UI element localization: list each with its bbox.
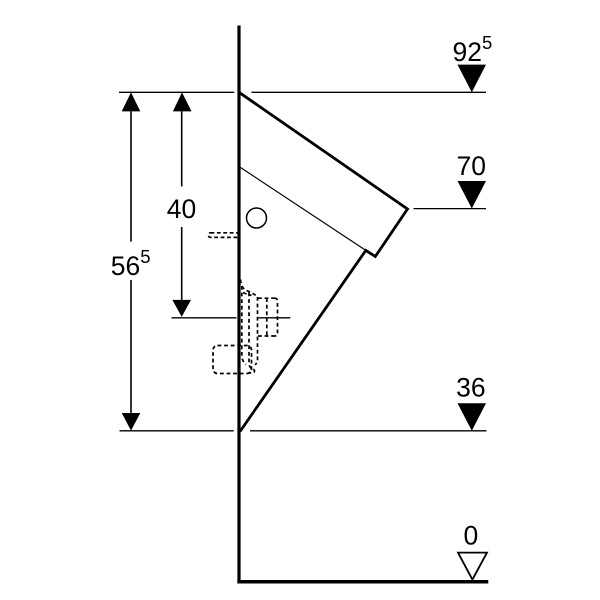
dimension arrow up 40 [173,92,192,111]
dimension arrow up 56.5 [122,92,141,111]
level arrow 36 [458,403,487,431]
trap tube middle wall (dashed) [249,293,253,370]
outlet socket middle rib (dashed) [266,298,268,336]
svg-text:0: 0 [464,521,479,551]
level line 36 [120,430,234,432]
level arrow 92.5 [458,65,487,93]
dimension stem 40 lower [181,227,183,300]
trap bottom hook (dashed) [249,369,255,373]
svg-text:70: 70 [457,151,486,181]
level arrow 0 (open) [458,553,487,580]
urinal inner rim line [239,167,366,251]
trap tube right wall (dashed) [255,297,258,365]
dimension arrow down 40 [172,300,191,317]
trap inlet curve outer (dashed) [241,280,259,298]
level line 70 [414,208,487,210]
dimension stem 56.5 upper [130,111,132,241]
dimension stem 56.5 lower [130,280,132,413]
mounting hole circle [247,208,267,228]
trap inlet curve inner (dashed) [243,293,252,296]
outlet socket right cap (dashed) [275,298,278,336]
level line 92.5 [119,91,234,93]
dimension arrow down 56.5 [122,413,141,431]
dimension stem 40 upper [181,111,183,186]
level arrow 70 [458,181,487,209]
outlet socket top line (dashed) [258,297,275,299]
urinal outline [239,92,408,431]
svg-text:40: 40 [167,194,196,224]
water inlet pipe (dashed, behind wall) [209,233,239,238]
svg-text:36: 36 [456,373,485,403]
outlet socket bottom line (dashed) [258,335,275,337]
drain pipe box lower-left (dashed) [213,346,252,374]
wall [237,26,240,584]
dimension line 40 horizontal [172,317,237,319]
trap tube left wall (dashed) [242,286,246,365]
floor [237,580,488,584]
